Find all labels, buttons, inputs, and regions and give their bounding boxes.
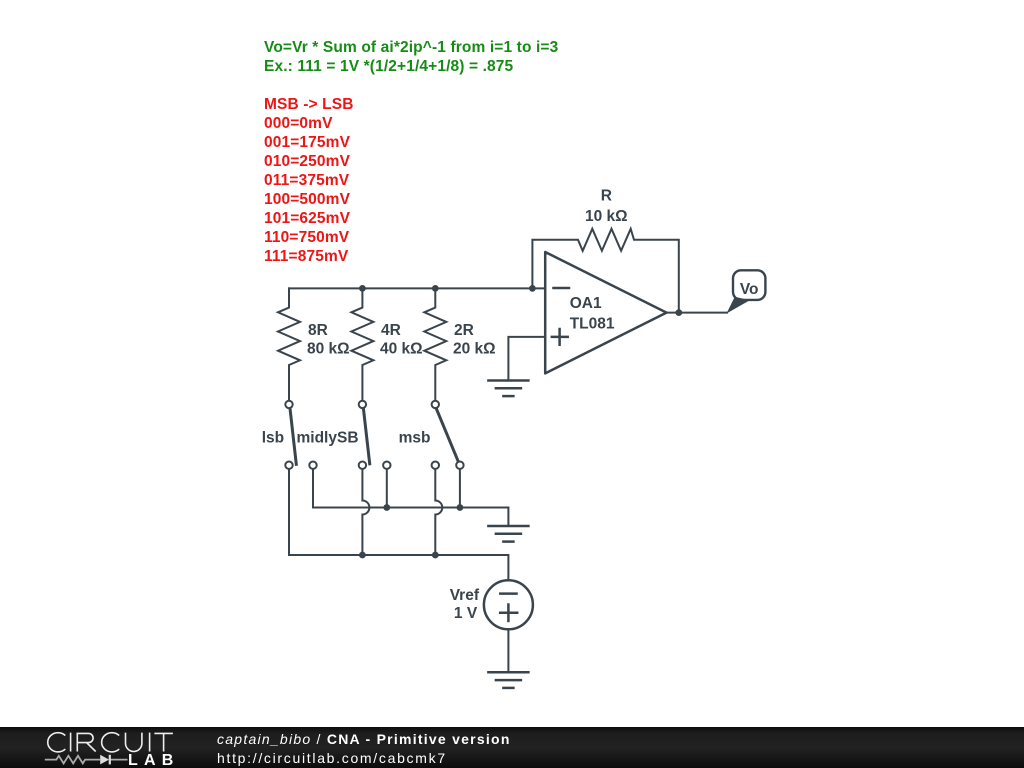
logo diode triangle bbox=[100, 755, 109, 765]
logo letter T bbox=[154, 733, 173, 751]
svg-text:80 kΩ: 80 kΩ bbox=[307, 340, 350, 357]
Vo flag box bbox=[733, 270, 765, 300]
svg-text:40 kΩ: 40 kΩ bbox=[380, 340, 423, 357]
ground G2 (switch common) bbox=[488, 526, 528, 542]
node junction dot inverting input bbox=[529, 285, 536, 292]
svg-text:lsb: lsb bbox=[262, 430, 284, 447]
svg-text:1 V: 1 V bbox=[454, 605, 478, 622]
op-amp OA1 triangle bbox=[545, 252, 666, 373]
wire Vref to ground bbox=[507, 629, 509, 672]
svg-text:TL081: TL081 bbox=[570, 315, 615, 332]
node junction dot bottom bus 1 bbox=[359, 552, 366, 559]
svg-text:Vo: Vo bbox=[740, 281, 759, 298]
svg-text:8R: 8R bbox=[308, 322, 328, 339]
wire midlySB pole down with hop over mid bus bbox=[362, 469, 369, 555]
svg-text:msb: msb bbox=[399, 430, 431, 447]
wire non-inverting input to ground bbox=[508, 337, 545, 381]
svg-text:Vref: Vref bbox=[450, 587, 480, 604]
annotation text block bbox=[264, 38, 558, 266]
footer credit text bbox=[217, 730, 511, 767]
switch SW1 lsb lever bbox=[290, 408, 296, 464]
wire op-amp output bbox=[667, 312, 728, 314]
node junction dot mid bus 1 bbox=[383, 504, 390, 511]
switch SW2 terminals bbox=[359, 401, 391, 469]
voltage source Vref circle bbox=[484, 580, 533, 629]
logo diode cathode bbox=[109, 755, 111, 765]
op-amp plus input sign bbox=[552, 329, 568, 345]
resistor R5 4R 40k bbox=[351, 288, 373, 400]
logo resistor squiggle bbox=[45, 756, 100, 764]
node junction dot bottom bus 2 bbox=[432, 552, 439, 559]
wire top bus (inverting input net) bbox=[289, 287, 545, 289]
switch SW3 terminals bbox=[432, 401, 464, 469]
node junction dot output bbox=[675, 309, 682, 316]
ground G3 (Vref) bbox=[488, 672, 528, 688]
footer bar bbox=[0, 727, 1024, 768]
wire bottom bus to Vref bbox=[289, 555, 508, 580]
wire midlySB right throw to mid bus bbox=[386, 469, 388, 508]
Vo flag pointer bbox=[727, 297, 750, 314]
resistor R 10k feedback with wire bbox=[532, 229, 678, 313]
svg-text:OA1: OA1 bbox=[570, 295, 602, 312]
logo letter U bbox=[126, 733, 142, 752]
wire msb right throw to mid bus bbox=[459, 469, 461, 508]
wire mid bus down to ground bbox=[507, 508, 509, 527]
wire msb pole down with hop over mid bus bbox=[435, 469, 442, 555]
svg-text:2R: 2R bbox=[454, 322, 474, 339]
resistor R6 2R 20k bbox=[424, 288, 446, 400]
logo letter I bbox=[149, 733, 151, 752]
ground G1 (op-amp + input) bbox=[488, 381, 528, 397]
logo diode wire bbox=[110, 759, 127, 761]
Vref minus sign bbox=[500, 592, 516, 595]
svg-text:R: R bbox=[601, 188, 612, 205]
wire lsb left throw to bottom bus bbox=[288, 469, 290, 555]
svg-text:midlySB: midlySB bbox=[297, 430, 359, 447]
logo letter C bbox=[102, 733, 120, 752]
op-amp minus input sign bbox=[554, 287, 570, 290]
svg-text:4R: 4R bbox=[381, 322, 401, 339]
svg-text:20 kΩ: 20 kΩ bbox=[453, 340, 496, 357]
svg-text:10 kΩ: 10 kΩ bbox=[585, 208, 628, 225]
svg-text:LAB: LAB bbox=[128, 752, 173, 768]
node junction dot top bus 1 bbox=[359, 285, 366, 292]
resistor R4 8R 80k bbox=[278, 288, 300, 400]
logo letter R bbox=[77, 733, 95, 751]
switch SW1 terminals bbox=[285, 401, 316, 469]
logo letter C bbox=[48, 733, 66, 752]
switch SW2 midlySB lever bbox=[363, 408, 369, 464]
wire lsb right throw to mid bus bbox=[313, 469, 508, 508]
node junction dot mid bus 2 bbox=[457, 504, 464, 511]
logo letter I bbox=[70, 733, 72, 752]
switch SW3 msb lever bbox=[436, 409, 459, 463]
node junction dot top bus 2 bbox=[432, 285, 439, 292]
Vref plus sign bbox=[500, 605, 517, 621]
